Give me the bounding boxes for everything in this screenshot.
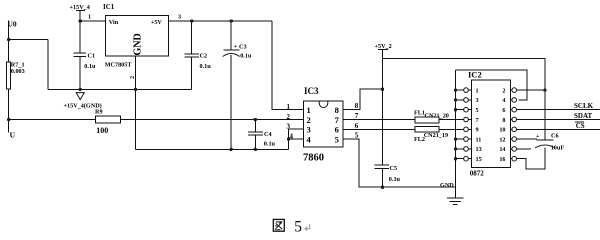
svg-text:10: 10 bbox=[499, 127, 505, 134]
power +5V_2 bbox=[375, 43, 392, 165]
wire U0 to ground rail horizontal bbox=[9, 39, 48, 41]
svg-text:5: 5 bbox=[476, 107, 479, 114]
caption return mark bbox=[305, 224, 310, 230]
svg-text:U: U bbox=[10, 130, 16, 139]
caption figure 5 glyph bbox=[273, 219, 284, 231]
ferrite bead FL1 bbox=[414, 110, 449, 123]
wire IC2 left bus bbox=[455, 70, 457, 198]
svg-text:15: 15 bbox=[476, 156, 482, 163]
capacitor C6 bbox=[535, 133, 564, 152]
svg-text:1: 1 bbox=[476, 87, 479, 94]
svg-text:14: 14 bbox=[499, 146, 505, 153]
svg-text:3: 3 bbox=[287, 123, 291, 131]
svg-text:1: 1 bbox=[88, 14, 91, 21]
wire bus stub pin11 bbox=[456, 138, 464, 140]
pin numbers IC2 right bbox=[499, 87, 505, 163]
svg-text:100: 100 bbox=[96, 126, 108, 135]
resistor R9 bbox=[95, 109, 121, 136]
wire IC3 pin4 stub bbox=[289, 138, 304, 140]
wire IC2 top loop to pin4 bbox=[456, 70, 528, 100]
capacitor C1 bbox=[73, 21, 96, 89]
wire IC2 pin2 to +5V2 bbox=[517, 89, 546, 91]
svg-text:7860: 7860 bbox=[303, 152, 324, 163]
svg-text:R9: R9 bbox=[95, 109, 103, 116]
svg-text:8: 8 bbox=[355, 102, 359, 110]
wire ground rail top bbox=[48, 88, 192, 90]
wire IC3 pin6 to FL2 bbox=[343, 128, 415, 130]
pin stubs IC2 left body bbox=[468, 90, 471, 159]
wire U0 vertical top bbox=[8, 21, 10, 63]
net SCLK bbox=[517, 102, 600, 110]
svg-text:6: 6 bbox=[355, 122, 359, 130]
wire R7_1 bottom bbox=[8, 89, 10, 132]
capacitor C4 bbox=[248, 120, 276, 150]
svg-text:5: 5 bbox=[355, 132, 359, 140]
svg-text:CN21_19: CN21_19 bbox=[424, 132, 448, 139]
wire bus stub pin3 bbox=[456, 99, 464, 101]
pin circles IC2 left bbox=[464, 88, 469, 161]
svg-text:13: 13 bbox=[476, 146, 482, 153]
wire bus stub pin5 bbox=[456, 109, 464, 111]
svg-text:0872: 0872 bbox=[470, 170, 485, 178]
resistor R7_1 bbox=[7, 62, 25, 89]
svg-text:6: 6 bbox=[335, 125, 339, 135]
svg-text:3: 3 bbox=[476, 97, 479, 104]
svg-text:C1: C1 bbox=[88, 53, 96, 60]
junction U bbox=[7, 118, 10, 121]
wire +5V down to IC3 bbox=[272, 21, 303, 110]
svg-text:2: 2 bbox=[307, 115, 311, 125]
junction C3 bottom bbox=[230, 148, 233, 151]
svg-text:IC1: IC1 bbox=[103, 3, 115, 11]
wire bus stub pin15 bbox=[456, 158, 464, 160]
svg-text:7: 7 bbox=[335, 115, 340, 125]
junction IC2 pin2 rail bbox=[543, 88, 546, 91]
wire +5V rail bbox=[168, 20, 272, 22]
svg-text:4: 4 bbox=[502, 97, 505, 104]
junction bus pin1 bbox=[454, 88, 457, 91]
svg-text:SCLK: SCLK bbox=[574, 102, 594, 110]
wire FL2 to IC2 pin9 bbox=[439, 128, 464, 130]
svg-text:C2: C2 bbox=[200, 53, 208, 60]
svg-text:12: 12 bbox=[499, 136, 505, 143]
svg-text:7: 7 bbox=[355, 112, 359, 120]
capacitor C3 bbox=[223, 21, 252, 149]
svg-text:0.1u: 0.1u bbox=[200, 63, 212, 70]
svg-text:1: 1 bbox=[287, 103, 291, 111]
isolation amplifier IC3 7860 bbox=[303, 86, 343, 163]
junction bus pin13 bbox=[454, 147, 457, 150]
svg-text:Vin: Vin bbox=[109, 19, 119, 26]
svg-text:GND: GND bbox=[440, 182, 454, 189]
svg-text:2: 2 bbox=[502, 87, 505, 94]
svg-text:2: 2 bbox=[129, 76, 136, 79]
ferrite bead FL2 bbox=[414, 126, 448, 143]
wire IC3 pin5 to ground rail bbox=[343, 139, 455, 187]
junction C5 bottom bbox=[381, 186, 384, 189]
wire IC2 pin14 stub bbox=[517, 148, 532, 150]
pin numbers IC3 left outside bbox=[287, 103, 294, 140]
wire IC2 pin16 to C6 bbox=[517, 148, 546, 170]
svg-text:C4: C4 bbox=[264, 131, 272, 138]
junction bus pin3 bbox=[454, 98, 457, 101]
svg-text:C6: C6 bbox=[551, 133, 559, 140]
wire IC2 pin12 stub bbox=[517, 138, 538, 140]
net CS bbox=[517, 122, 600, 130]
svg-text:0.1u: 0.1u bbox=[240, 53, 252, 60]
capacitor C5 bbox=[374, 165, 400, 187]
svg-text:C5: C5 bbox=[390, 165, 398, 172]
junction IC3 pin4 bbox=[287, 137, 290, 140]
svg-text:0.1u: 0.1u bbox=[264, 141, 276, 148]
junction C2 top bbox=[190, 19, 193, 22]
junction C1 ground bbox=[79, 88, 82, 91]
pin circles IC2 right bbox=[512, 88, 517, 161]
wire gnd hook up to IC3 pin3 bbox=[288, 129, 290, 149]
svg-text:MC7805T: MC7805T bbox=[105, 62, 133, 69]
svg-text:+: + bbox=[536, 133, 540, 140]
svg-text:0.1u: 0.1u bbox=[389, 176, 401, 183]
ADC IC2 0872 bbox=[468, 70, 510, 178]
wire +5V_2 top rail to C6 bbox=[383, 59, 546, 140]
junction bus pin15 bbox=[454, 157, 457, 160]
svg-text:CS: CS bbox=[576, 122, 585, 130]
pin numbers IC3 right outside bbox=[355, 102, 359, 139]
svg-text:6: 6 bbox=[502, 107, 505, 114]
ground bars symbol bbox=[447, 198, 464, 205]
junction C4 top bbox=[254, 118, 257, 121]
ground arrow symbol bbox=[76, 93, 84, 100]
junction IC1 gnd rail bbox=[134, 88, 137, 91]
junction C4 bottom bbox=[254, 148, 257, 151]
svg-text:8: 8 bbox=[335, 105, 339, 115]
junction bus pin5 bbox=[454, 108, 457, 111]
junction +15V at IC1 input bbox=[79, 19, 82, 22]
wire IC3 pin3 stub bbox=[289, 128, 304, 130]
svg-text:7: 7 bbox=[476, 117, 479, 124]
junction pin8 +5V_2 bbox=[381, 88, 384, 91]
svg-text:IC3: IC3 bbox=[304, 86, 319, 96]
svg-text:8: 8 bbox=[502, 117, 505, 124]
svg-text:SDAT: SDAT bbox=[574, 112, 592, 120]
svg-text:FL1: FL1 bbox=[414, 110, 425, 117]
svg-text:IC2: IC2 bbox=[468, 70, 482, 80]
wire down at x48 bbox=[47, 40, 49, 90]
svg-text:4: 4 bbox=[290, 132, 294, 140]
svg-text:GND: GND bbox=[133, 33, 144, 55]
wire U rail right of R9 to IC3 pin2 bbox=[121, 119, 304, 121]
junction U0 bbox=[7, 38, 10, 41]
capacitor C2 bbox=[185, 21, 212, 89]
svg-text:+5V: +5V bbox=[151, 19, 163, 26]
pin stubs IC2 right body bbox=[510, 90, 512, 159]
pin numbers IC2 left bbox=[476, 87, 482, 163]
svg-text:0.1u: 0.1u bbox=[84, 63, 96, 70]
wire to IC1 Vin bbox=[80, 20, 105, 22]
voltage regulator IC1 MC7805T bbox=[103, 3, 168, 69]
svg-text:C3: C3 bbox=[239, 43, 247, 50]
svg-text:9: 9 bbox=[476, 127, 479, 134]
wire bus stub pin13 bbox=[456, 148, 464, 150]
svg-text:1: 1 bbox=[307, 105, 311, 115]
wire IC3 pin7 to FL1 bbox=[343, 119, 415, 121]
net SDAT bbox=[517, 112, 600, 120]
svg-text:5: 5 bbox=[294, 218, 302, 235]
wire bus stub pin1 bbox=[456, 89, 464, 91]
svg-text:+: + bbox=[234, 43, 238, 50]
junction C3 top bbox=[230, 19, 233, 22]
svg-text:2: 2 bbox=[287, 113, 291, 121]
svg-text:+15V_4: +15V_4 bbox=[70, 4, 90, 11]
junction bus pin11 bbox=[454, 137, 457, 140]
wire ground rail lower bbox=[136, 148, 289, 150]
svg-text:FL2: FL2 bbox=[414, 136, 425, 143]
wire IC1 GND pin down bbox=[135, 56, 137, 149]
svg-text:10uF: 10uF bbox=[551, 145, 565, 152]
svg-text:3: 3 bbox=[178, 14, 181, 21]
svg-text:0.003: 0.003 bbox=[11, 68, 25, 75]
svg-text:16: 16 bbox=[499, 156, 505, 163]
wire IC3 pin8 to +5V_2 bbox=[343, 89, 382, 110]
power +15V_4 bbox=[70, 4, 90, 21]
wire FL1 to IC2 pin7 bbox=[439, 119, 464, 121]
wire U rail left of R9 bbox=[9, 119, 96, 121]
svg-text:3: 3 bbox=[307, 125, 311, 135]
svg-text:5: 5 bbox=[335, 135, 339, 145]
svg-text:11: 11 bbox=[476, 136, 482, 143]
